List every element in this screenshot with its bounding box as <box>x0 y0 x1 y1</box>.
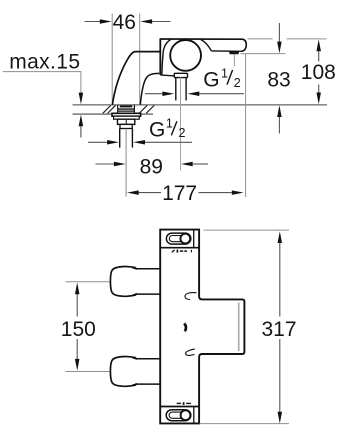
shank pipe left line <box>175 78 177 101</box>
shank block <box>120 124 132 128</box>
shank center line <box>180 77 182 171</box>
faucet body outer profile <box>112 52 160 105</box>
svg-text:83: 83 <box>267 69 290 92</box>
svg-text:46: 46 <box>113 11 136 34</box>
lower handle neck lines <box>136 359 161 384</box>
dimension 83 <box>267 23 290 134</box>
bottom cap pill outer <box>166 410 191 421</box>
dimension 177 <box>127 54 246 205</box>
faucet body inner profile <box>140 73 159 104</box>
spout right cap <box>242 39 247 51</box>
dimension 46 arrows <box>85 19 171 24</box>
svg-text:2: 2 <box>179 126 186 140</box>
box inner wall line <box>238 303 240 352</box>
body crescent mark <box>184 323 186 331</box>
deck hole left edge <box>117 105 119 114</box>
G 1/2 lower leader arrows <box>88 140 192 145</box>
svg-text:108: 108 <box>301 61 336 84</box>
upper handle neck lines <box>136 269 161 294</box>
dimension max.15 leader <box>3 72 83 138</box>
shank fitting cap <box>174 73 187 77</box>
bottom cap button circle <box>181 410 191 420</box>
top cap bottom line <box>160 247 199 249</box>
83 reference line <box>241 53 286 55</box>
faucet housing left edge <box>159 38 161 75</box>
aerator <box>229 51 239 54</box>
deck top line <box>73 104 328 106</box>
supply pipe right line <box>131 129 133 148</box>
bottom cap top line <box>160 406 199 408</box>
svg-text:89: 89 <box>140 156 163 179</box>
top cap pill outer <box>166 233 190 244</box>
top cap strip line <box>193 230 195 248</box>
top cap button circle <box>180 234 190 244</box>
svg-text:max.15: max.15 <box>9 51 80 74</box>
deck hatching <box>103 105 154 113</box>
top cap tiny icons <box>172 250 192 253</box>
knob circle <box>170 40 201 71</box>
svg-text:150: 150 <box>61 318 96 341</box>
upper handle knob <box>110 267 135 297</box>
G 1/2 upper label <box>203 66 240 91</box>
hex nut <box>118 119 135 124</box>
dimension 108 <box>301 40 336 105</box>
left waist curve <box>162 39 171 74</box>
aerator center tick <box>233 54 235 66</box>
dimension 150 extension lines <box>66 282 110 372</box>
lever top edge <box>160 38 242 40</box>
108 reference line top <box>248 38 327 40</box>
svg-text:317: 317 <box>261 318 296 341</box>
base flange <box>112 113 141 116</box>
bottom cap tiny icons <box>177 402 191 405</box>
dimension 150 <box>61 283 96 371</box>
svg-text:G: G <box>149 118 165 141</box>
top cap pill inner <box>169 236 188 242</box>
right waist curve <box>201 39 212 51</box>
thermostat body and spout box outline <box>160 230 244 424</box>
dimension 46 extension lines <box>112 14 140 105</box>
shank pipe right line <box>185 78 187 101</box>
hex nut facet line <box>125 119 127 124</box>
G 1/2 upper arrows <box>145 91 244 96</box>
svg-text:1: 1 <box>221 66 228 80</box>
dimension 317 <box>261 231 296 423</box>
top fillet hook <box>185 293 197 300</box>
thread lines <box>118 109 134 112</box>
dimension 89 <box>96 156 209 179</box>
bottom fillet hook <box>186 349 195 356</box>
faucet housing bottom slope <box>160 75 176 76</box>
lower handle knob <box>110 357 135 387</box>
supply pipe left line <box>119 129 121 148</box>
svg-text:1: 1 <box>166 116 173 130</box>
svg-text:2: 2 <box>234 76 241 90</box>
threaded bar <box>120 105 133 107</box>
supply center line <box>125 129 127 197</box>
dimension 317 extension lines <box>200 230 290 424</box>
base ring <box>114 116 140 119</box>
lower handle junction wedges <box>132 358 137 360</box>
spout bottom edge <box>211 50 242 52</box>
bottom cap strip line <box>193 407 195 424</box>
svg-text:177: 177 <box>162 182 197 205</box>
svg-text:G: G <box>203 69 219 92</box>
deck bottom line <box>73 113 154 115</box>
bottom cap pill inner <box>169 412 188 418</box>
G 1/2 lower label <box>149 116 186 141</box>
upper handle junction wedges <box>132 268 137 270</box>
deck hole right edge <box>133 105 135 114</box>
